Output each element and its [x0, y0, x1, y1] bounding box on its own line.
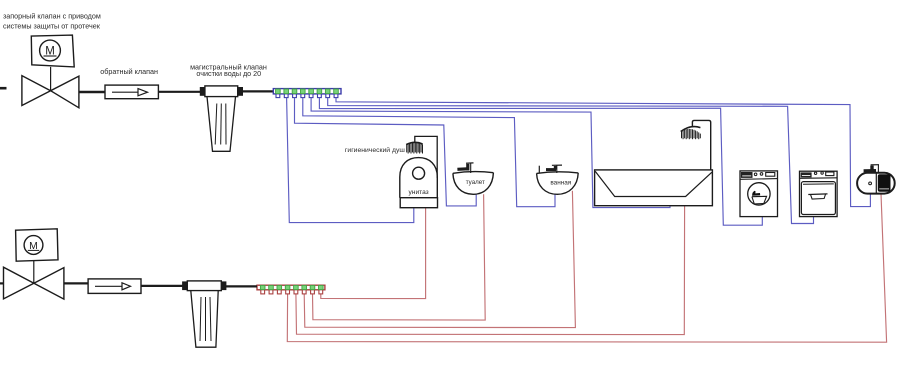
svg-text:запорный клапан с приводом: запорный клапан с приводом — [3, 12, 101, 21]
svg-text:унитаз: унитаз — [409, 189, 429, 196]
svg-text:системы защиты от протечек: системы защиты от протечек — [3, 22, 101, 31]
svg-text:очистки воды до 20: очистки воды до 20 — [196, 69, 261, 78]
svg-text:ванная: ванная — [550, 179, 571, 186]
svg-text:обратный клапан: обратный клапан — [100, 67, 158, 76]
svg-text:гигиенический душ: гигиенический душ — [345, 146, 405, 154]
svg-text:туалет: туалет — [466, 179, 485, 186]
